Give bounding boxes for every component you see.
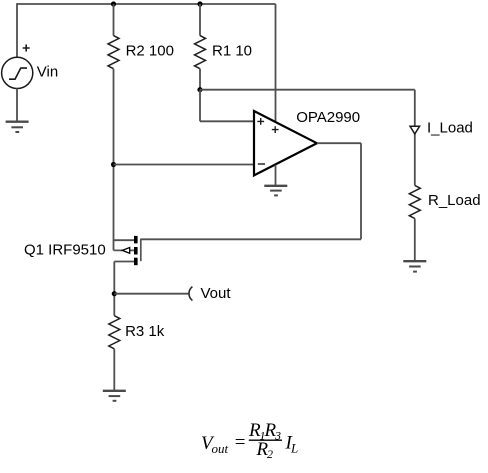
svg-text:Vin: Vin	[37, 63, 58, 80]
wire R_Load bottom	[414, 219, 416, 262]
wire Vin bottom	[16, 89, 18, 122]
terminal Vout	[189, 287, 192, 301]
resistor R_Load	[409, 185, 420, 218]
wire +input horizontal	[200, 120, 255, 122]
wire op-amp ground pin	[275, 165, 277, 186]
svg-text:R_Load: R_Load	[428, 192, 481, 209]
wire +input vertical	[199, 90, 201, 122]
wire load rail	[200, 89, 415, 91]
ground (R_Load)	[403, 261, 426, 271]
svg-text:R1 10: R1 10	[212, 42, 252, 59]
current probe I_Load	[410, 126, 420, 134]
svg-text:out: out	[212, 441, 229, 456]
ground (R3)	[103, 391, 126, 401]
wire gate feed	[141, 238, 361, 240]
wire Vin top	[16, 3, 18, 57]
wire Vout tap	[114, 293, 188, 295]
transistor Q1 IRF9510	[114, 236, 141, 265]
svg-text:L: L	[290, 440, 298, 455]
wire inverting input	[114, 164, 255, 166]
node dot inverting-input tap	[111, 162, 116, 167]
wire V+ supply drop	[275, 4, 277, 122]
svg-text:OPA2990: OPA2990	[296, 109, 360, 126]
wire R3 bottom	[113, 349, 115, 391]
node dot rail/R2	[111, 1, 116, 6]
svg-text:2: 2	[267, 447, 273, 461]
wire R1 top stub	[199, 4, 201, 36]
wire R2 top stub	[113, 4, 115, 36]
wire op-amp output	[317, 142, 361, 144]
wire top rail	[17, 3, 276, 5]
svg-text:Vout: Vout	[201, 285, 232, 302]
node dot R1/load/+input	[197, 87, 202, 92]
svg-text:Q1 IRF9510: Q1 IRF9510	[24, 241, 106, 258]
formula Vout = R1R3/R2 IL	[201, 420, 298, 461]
resistor R1	[195, 36, 206, 69]
ground (op-amp)	[264, 186, 287, 196]
wire R1 bottom	[199, 69, 201, 90]
svg-text:R2 100: R2 100	[126, 42, 174, 59]
op-amp U1 OPA2990	[254, 111, 317, 175]
svg-text:=: =	[234, 432, 247, 453]
node dot Vout	[112, 291, 117, 296]
ground (Vin)	[6, 122, 29, 132]
wire load drop	[414, 90, 416, 186]
wire feedback right drop	[360, 143, 362, 239]
node dot rail/R1	[197, 1, 202, 6]
resistor R3	[109, 316, 120, 349]
voltage source Vin	[2, 45, 33, 89]
resistor R2	[108, 36, 119, 69]
svg-text:I_Load: I_Load	[427, 119, 473, 136]
wire drain down	[113, 262, 115, 316]
wire R2 bottom to MOSFET source/bulk	[113, 69, 115, 251]
svg-text:R3 1k: R3 1k	[125, 323, 165, 340]
